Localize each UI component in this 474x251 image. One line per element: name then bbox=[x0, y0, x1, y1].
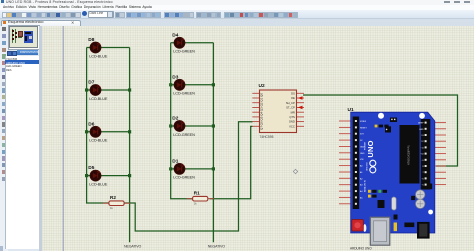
svg-text:LCD-BLUE: LCD-BLUE bbox=[89, 54, 108, 58]
svg-text:LCD-GREEN: LCD-GREEN bbox=[173, 92, 195, 96]
splitter bbox=[39, 26, 42, 251]
left mode strip bbox=[0, 26, 9, 251]
svg-text:Q2: Q2 bbox=[260, 102, 264, 106]
svg-text:Q0: Q0 bbox=[260, 93, 264, 97]
wire: D8 row bbox=[87, 47, 130, 49]
wire: column2 left bus to R1 bbox=[171, 43, 193, 199]
svg-text:GND: GND bbox=[419, 129, 424, 131]
svg-text:Q5: Q5 bbox=[260, 116, 264, 120]
LED D7 bbox=[88, 80, 108, 101]
wire: D5 row bbox=[87, 175, 130, 177]
wire: R2 to U2 pin7 bbox=[124, 122, 253, 231]
svg-text:R2: R2 bbox=[110, 195, 116, 200]
wire: column2 right bus to NEGATIVO bbox=[212, 43, 214, 243]
resistor R1 bbox=[187, 191, 214, 206]
svg-text:D3: D3 bbox=[172, 74, 178, 80]
list area bbox=[5, 56, 40, 249]
svg-text:U2: U2 bbox=[259, 83, 265, 89]
junction dots column1 bbox=[85, 88, 131, 177]
svg-text:GND: GND bbox=[289, 120, 295, 124]
svg-text:VIN: VIN bbox=[360, 159, 364, 161]
svg-text:R1: R1 bbox=[194, 191, 200, 196]
wire: R1 to U2 pin8 bbox=[210, 126, 253, 198]
wire: column1 left bus to R2 bbox=[87, 48, 109, 204]
LED D2 bbox=[172, 116, 195, 137]
svg-text:MR: MR bbox=[291, 110, 295, 114]
svg-text:SH_CP: SH_CP bbox=[286, 101, 295, 105]
wire: D1 row bbox=[171, 168, 214, 170]
svg-text:ST_CP: ST_CP bbox=[286, 106, 295, 110]
svg-text:DS: DS bbox=[291, 91, 295, 95]
title bar bbox=[0, 0, 474, 5]
svg-text:ANALOG IN: ANALOG IN bbox=[363, 180, 366, 192]
LED D5 bbox=[88, 165, 108, 186]
wire: D6 row bbox=[87, 131, 130, 133]
toolbar bbox=[0, 10, 474, 19]
resistor R2 bbox=[103, 195, 130, 210]
svg-text:Q3: Q3 bbox=[260, 107, 264, 111]
svg-text:Q4: Q4 bbox=[260, 112, 264, 116]
node NEGATIVO (left) bbox=[124, 245, 141, 249]
svg-text:Q7S: Q7S bbox=[289, 115, 295, 119]
menu bar bbox=[0, 5, 474, 10]
svg-text:74HC595: 74HC595 bbox=[260, 135, 274, 139]
svg-text:OE: OE bbox=[291, 96, 295, 100]
svg-text:D2: D2 bbox=[172, 116, 178, 122]
svg-text:UNO: UNO bbox=[366, 140, 375, 157]
wire: D7 row bbox=[87, 89, 130, 91]
IC U2 74HC595 shift register bbox=[252, 83, 304, 139]
svg-text:LCD-BLUE: LCD-BLUE bbox=[89, 182, 108, 186]
LED D8 bbox=[88, 37, 108, 58]
svg-text:D1: D1 bbox=[172, 159, 178, 165]
svg-text:IOREF: IOREF bbox=[360, 121, 367, 123]
svg-text:ATMEGA328P-PU: ATMEGA328P-PU bbox=[408, 145, 411, 165]
svg-text:AREF: AREF bbox=[418, 122, 424, 125]
junction dots column2 bbox=[169, 83, 215, 170]
tab bar bbox=[0, 19, 474, 27]
node NEGATIVO (right) bbox=[208, 245, 225, 249]
node marker diamond bbox=[293, 169, 297, 173]
svg-text:LCD-GREEN: LCD-GREEN bbox=[173, 133, 195, 137]
svg-text:NEGATIVO: NEGATIVO bbox=[124, 245, 141, 249]
svg-text:RESET: RESET bbox=[360, 127, 367, 129]
preview pane bbox=[8, 25, 40, 50]
svg-text:ARDUINO: ARDUINO bbox=[365, 162, 368, 171]
svg-text:Q7: Q7 bbox=[260, 126, 264, 130]
Arduino UNO U1 bbox=[339, 107, 446, 250]
svg-text:GND: GND bbox=[360, 153, 365, 155]
wire: D3 row bbox=[171, 84, 214, 86]
wire: U2 pin to Arduino D pin bbox=[303, 95, 458, 166]
svg-text:LCD-BLUE: LCD-BLUE bbox=[89, 97, 108, 101]
sheet border bbox=[62, 26, 64, 251]
svg-text:D6: D6 bbox=[88, 121, 94, 127]
svg-text:Q1: Q1 bbox=[260, 97, 264, 101]
svg-text:LCD-BLUE: LCD-BLUE bbox=[89, 139, 108, 143]
svg-text:VCC: VCC bbox=[289, 124, 295, 128]
svg-text:ARDUINO UNO: ARDUINO UNO bbox=[350, 247, 372, 251]
svg-text:LCD-GREEN: LCD-GREEN bbox=[173, 50, 195, 54]
svg-text:D5: D5 bbox=[88, 165, 94, 171]
left panel body bbox=[8, 26, 40, 251]
wire: D4 row bbox=[171, 42, 214, 44]
LED D6 bbox=[88, 121, 108, 142]
LED D1 bbox=[172, 159, 195, 180]
svg-text:LCD-GREEN: LCD-GREEN bbox=[173, 176, 195, 180]
svg-text:Q6: Q6 bbox=[260, 121, 264, 125]
svg-text:D4: D4 bbox=[172, 32, 178, 38]
svg-text:D7: D7 bbox=[88, 80, 94, 86]
wire: D2 row bbox=[171, 125, 214, 127]
LED D4 bbox=[172, 32, 195, 53]
wire: column1 right bus to NEGATIVO bbox=[129, 48, 131, 243]
svg-text:NEGATIVO: NEGATIVO bbox=[208, 245, 225, 249]
svg-text:D8: D8 bbox=[88, 37, 94, 43]
LED D3 bbox=[172, 74, 195, 95]
